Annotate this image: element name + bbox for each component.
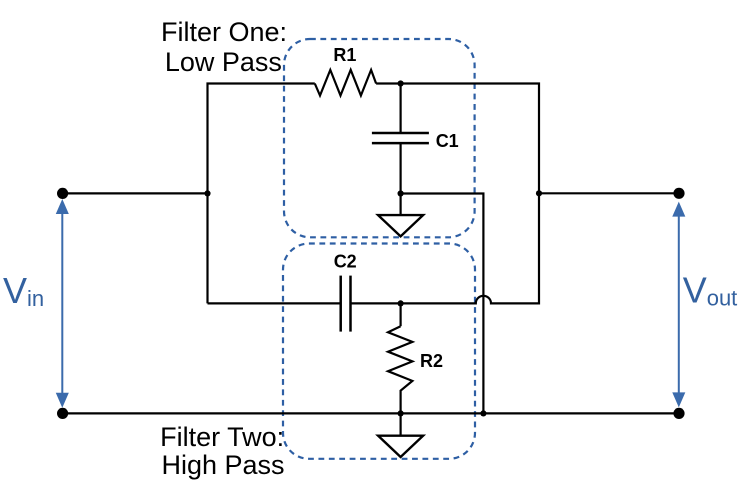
- svg-text:Vout: Vout: [683, 270, 738, 311]
- svg-text:Filter Two:: Filter Two:: [160, 422, 284, 452]
- svg-text:High Pass: High Pass: [161, 450, 284, 480]
- svg-text:C1: C1: [436, 131, 459, 151]
- svg-text:C2: C2: [334, 252, 357, 272]
- svg-text:R1: R1: [333, 45, 356, 65]
- svg-text:Filter One:: Filter One:: [161, 17, 287, 47]
- svg-text:R2: R2: [420, 351, 443, 371]
- svg-text:Low Pass: Low Pass: [165, 47, 282, 77]
- svg-text:Vin: Vin: [3, 270, 44, 311]
